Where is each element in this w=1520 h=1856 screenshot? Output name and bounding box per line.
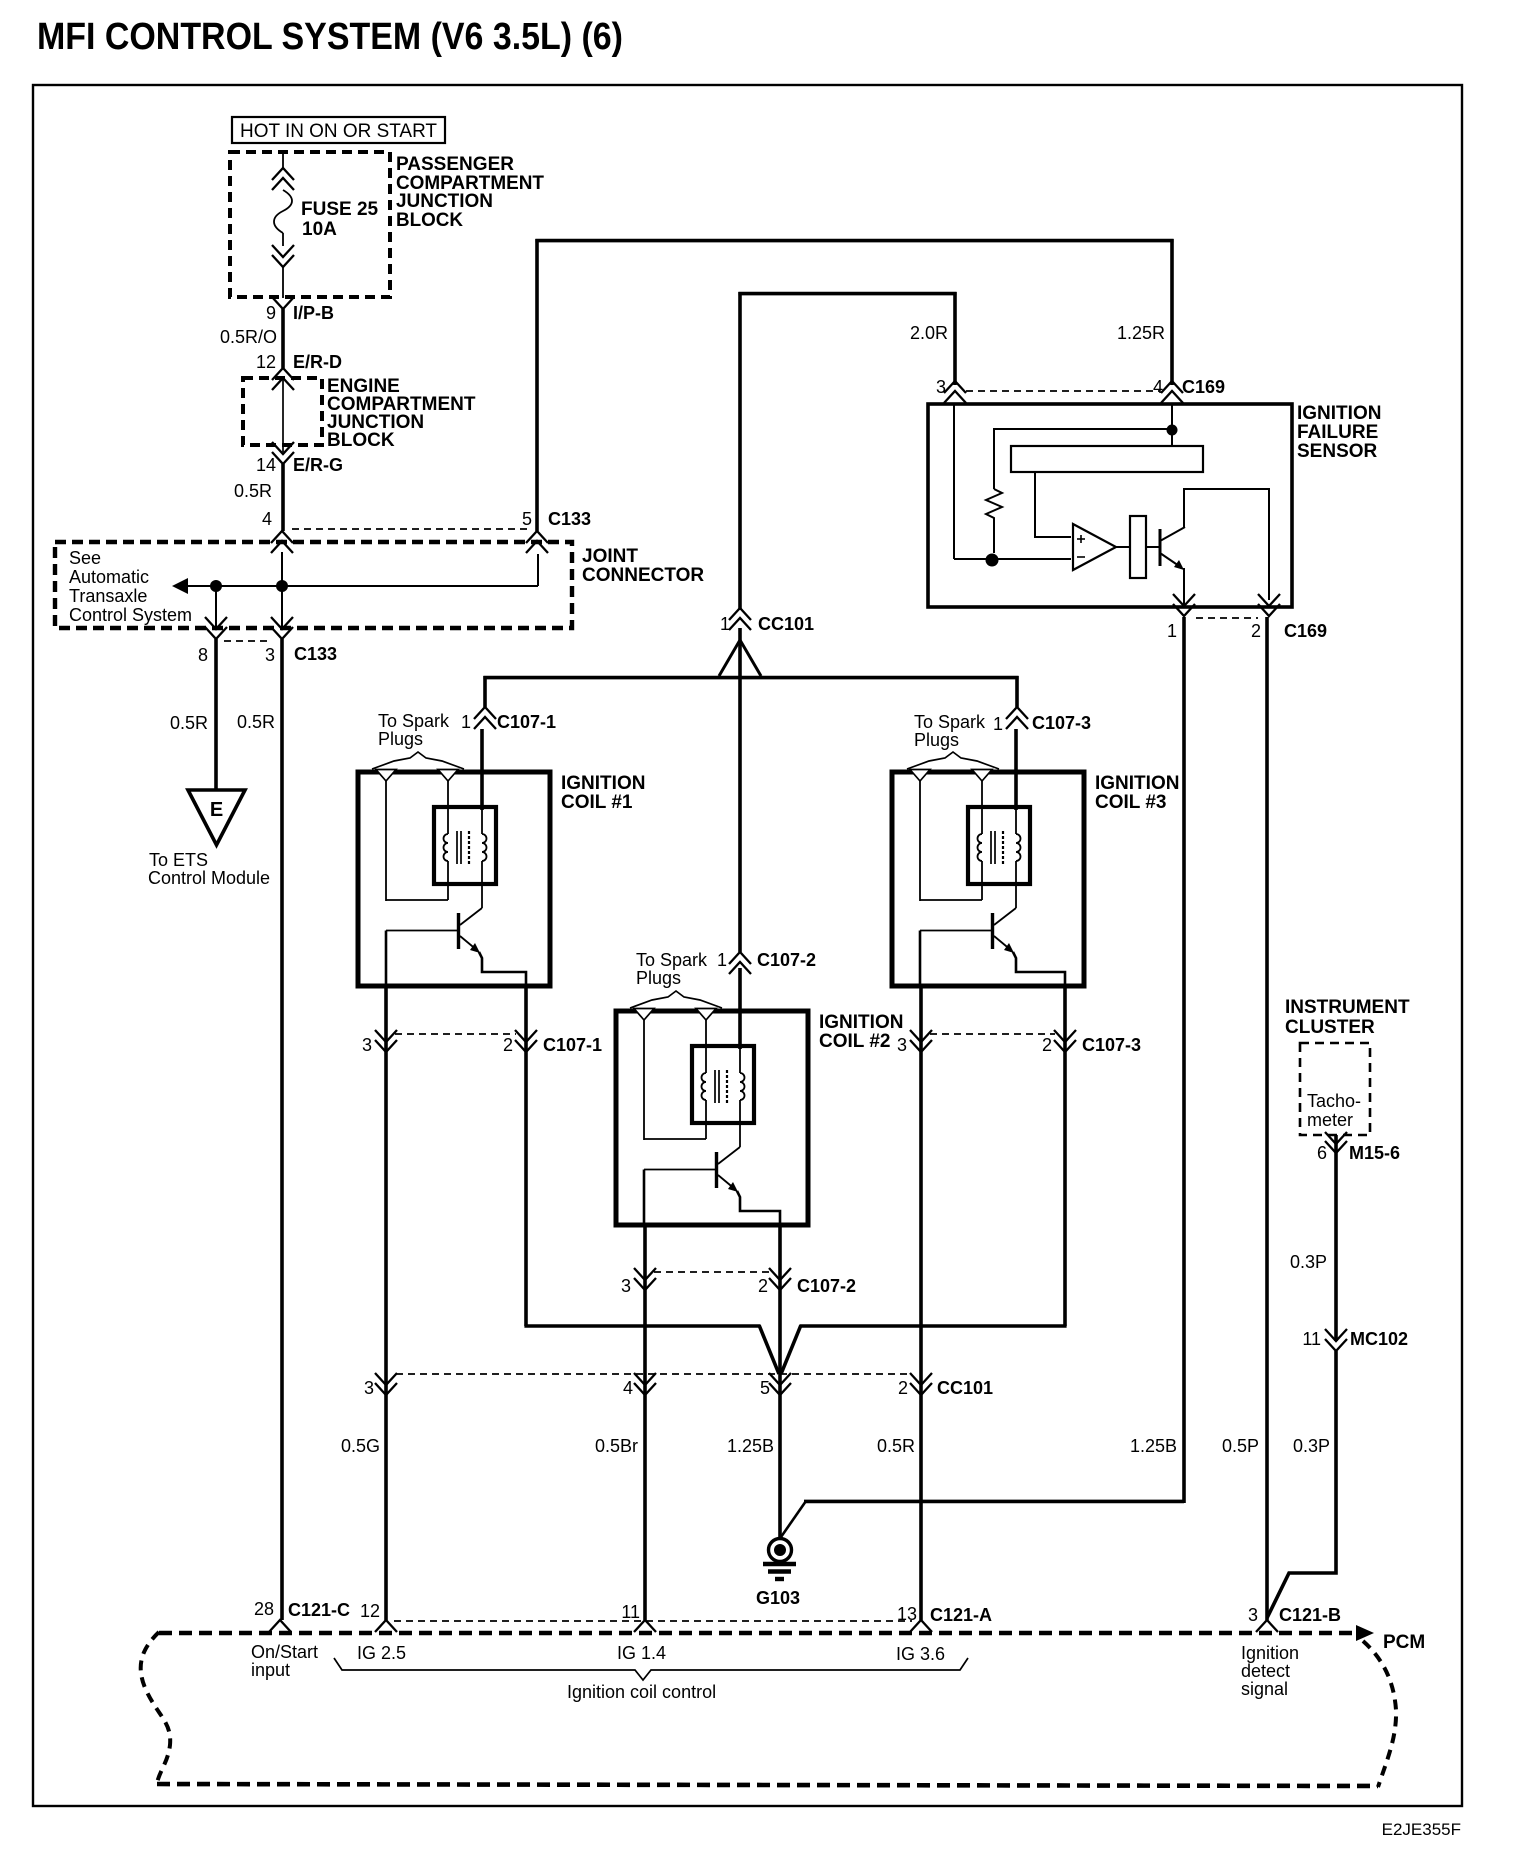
wire 0.3P tacho: [1334, 1135, 1338, 1341]
svg-text:4: 4: [262, 509, 272, 529]
svg-text:12: 12: [256, 352, 276, 372]
wire 0.5P C169-2 to PCM: [1265, 617, 1269, 1620]
connector 13 C121-A: [910, 1620, 932, 1632]
svg-text:Ignition: Ignition: [1241, 1643, 1299, 1663]
ground E: [188, 790, 245, 845]
svg-text:3: 3: [362, 1035, 372, 1055]
svg-text:11: 11: [621, 1602, 640, 1622]
resistor block (sensor): [1011, 446, 1203, 472]
junction dot: [210, 580, 222, 592]
svg-text:BLOCK: BLOCK: [327, 430, 395, 451]
passenger compartment junction block: [230, 152, 390, 297]
primary wire (coil 1): [480, 729, 484, 810]
ground G103: [769, 1539, 792, 1562]
wires below coil 3: [919, 988, 923, 1620]
svg-text:JOINT: JOINT: [582, 546, 638, 567]
svg-text:1: 1: [720, 614, 730, 634]
svg-text:signal: signal: [1241, 1679, 1288, 1699]
svg-text:2: 2: [503, 1035, 513, 1055]
dashed link 1-2 C169: [1196, 617, 1258, 619]
wires below coil 1: [384, 988, 388, 1620]
svg-text:1.25R: 1.25R: [1117, 323, 1165, 343]
svg-text:C169: C169: [1182, 377, 1225, 397]
spark plug notch (coil 3): [910, 770, 930, 782]
svg-text:2: 2: [758, 1276, 768, 1296]
transistor Q1 (sensor): [1159, 529, 1162, 566]
svg-text:E2JE355F: E2JE355F: [1382, 1820, 1461, 1839]
svg-text:2: 2: [1042, 1035, 1052, 1055]
sensor internal wires: [953, 404, 955, 559]
emitter wire (coil 3): [1013, 952, 1065, 988]
svg-text:Automatic: Automatic: [69, 567, 149, 587]
svg-text:3: 3: [936, 377, 946, 397]
connector 5 CC101: [769, 1373, 791, 1385]
svg-text:1: 1: [993, 714, 1003, 734]
svg-text:0.5Br: 0.5Br: [595, 1436, 638, 1456]
ignition coil #2 box: [616, 1011, 808, 1225]
label: HOT IN ON OR START: [232, 117, 445, 143]
svg-text:8: 8: [198, 645, 208, 665]
node (junction dot): [986, 554, 999, 567]
svg-text:SENSOR: SENSOR: [1297, 441, 1378, 462]
svg-text:FAILURE: FAILURE: [1297, 422, 1378, 443]
svg-text:2.0R: 2.0R: [910, 323, 948, 343]
connector 1 C107-3: [1006, 707, 1028, 719]
svg-text:C107-1: C107-1: [543, 1035, 602, 1055]
driver block: [1130, 516, 1146, 578]
svg-text:To Spark: To Spark: [914, 712, 986, 732]
connector 11 MC102: [1325, 1329, 1347, 1341]
svg-text:input: input: [251, 1660, 290, 1680]
dashed link C107-1: [395, 1033, 516, 1035]
svg-text:0.3P: 0.3P: [1290, 1252, 1327, 1272]
wire 1.25B from sensor to ground: [1182, 617, 1186, 1503]
ignition coil #1 box: [358, 772, 550, 986]
emitter to pin1: [1183, 568, 1185, 607]
wires below coil 2: [643, 1225, 647, 1620]
svg-text:0.5R/O: 0.5R/O: [220, 327, 277, 347]
transistor Q1: [457, 913, 460, 949]
primary wire (coil 2): [738, 968, 742, 1049]
base feed wire (coil 3): [919, 931, 922, 989]
svg-text:I/P-B: I/P-B: [293, 303, 334, 323]
svg-text:2: 2: [898, 1378, 908, 1398]
wire joint connector bus: [186, 585, 538, 587]
svg-text:C107-3: C107-3: [1032, 713, 1091, 733]
base feed wire (coil 1): [385, 931, 388, 989]
svg-text:MFI CONTROL SYSTEM (V6 3.5L) (: MFI CONTROL SYSTEM (V6 3.5L) (6): [37, 16, 623, 58]
emitter wire (coil 2): [737, 1191, 780, 1227]
transistor Q2: [715, 1152, 718, 1188]
wire converge to CC101-5: [524, 1324, 760, 1328]
svg-text:0.5R: 0.5R: [877, 1436, 915, 1456]
emitter wire (coil 1): [479, 952, 526, 988]
connector 2 C107-1: [515, 1030, 537, 1042]
wire 0.5R main run: [280, 639, 284, 1620]
wire rect to op-amp +: [1035, 472, 1071, 537]
svg-text:0.5R: 0.5R: [237, 712, 275, 732]
svg-text:0.5R: 0.5R: [234, 481, 272, 501]
svg-text:6: 6: [1317, 1143, 1327, 1163]
svg-text:CONNECTOR: CONNECTOR: [582, 565, 704, 586]
svg-text:E: E: [210, 799, 223, 821]
svg-text:COIL #1: COIL #1: [561, 792, 633, 813]
svg-text:M15-6: M15-6: [1349, 1143, 1400, 1163]
connector 2 C107-2: [769, 1268, 791, 1280]
svg-text:G103: G103: [756, 1588, 800, 1608]
connector 5 C133: [526, 531, 548, 543]
svg-text:C169: C169: [1284, 621, 1327, 641]
svg-text:1: 1: [717, 950, 727, 970]
svg-text:C121-C: C121-C: [288, 1600, 350, 1620]
svg-text:Ignition coil control: Ignition coil control: [567, 1682, 716, 1702]
connector 2 C107-3: [1054, 1030, 1076, 1042]
fuse F25: [282, 152, 284, 169]
svg-text:0.5R: 0.5R: [170, 713, 208, 733]
svg-text:COIL #2: COIL #2: [819, 1031, 890, 1052]
connector 2 C169: [1258, 594, 1280, 606]
connector 3 C107-3: [910, 1030, 932, 1042]
svg-text:C107-3: C107-3: [1082, 1035, 1141, 1055]
primary wire (coil 3): [1014, 729, 1018, 810]
svg-text:1: 1: [461, 712, 471, 732]
svg-text:C121-B: C121-B: [1279, 1605, 1341, 1625]
connector 3 CC101: [375, 1373, 397, 1385]
transistor Q3: [991, 913, 994, 949]
svg-text:C107-2: C107-2: [757, 950, 816, 970]
wire C133-5 to C169-4: [535, 239, 539, 531]
svg-text:MC102: MC102: [1350, 1329, 1408, 1349]
wire CC101-1 to C169-3: [738, 292, 742, 610]
connector 11 C121-A: [634, 1620, 656, 1632]
wire 0.5R to ETS: [214, 639, 218, 790]
svg-text:BLOCK: BLOCK: [396, 210, 463, 231]
svg-text:2: 2: [1251, 621, 1261, 641]
svg-text:PASSENGER: PASSENGER: [396, 154, 514, 175]
svg-text:To Spark: To Spark: [636, 950, 708, 970]
joint connector: [55, 542, 572, 628]
svg-text:28: 28: [254, 1599, 274, 1619]
svg-text:3: 3: [621, 1276, 631, 1296]
base feed wire (coil 2): [643, 1170, 646, 1228]
svg-text:To ETS: To ETS: [149, 850, 208, 870]
svg-text:CC101: CC101: [937, 1378, 993, 1398]
svg-text:COIL #3: COIL #3: [1095, 792, 1166, 813]
transformer T1: [434, 807, 496, 884]
connector 3 C107-2: [634, 1268, 656, 1280]
op-amp output to driver block: [1114, 546, 1130, 548]
wire 0.5R/O: [281, 309, 285, 368]
wire branch to coils: [738, 628, 742, 952]
svg-text:E/R-D: E/R-D: [293, 352, 342, 372]
svg-text:C133: C133: [548, 509, 591, 529]
svg-text:13: 13: [897, 1604, 917, 1624]
svg-text:C121-A: C121-A: [930, 1605, 992, 1625]
svg-text:0.3P: 0.3P: [1293, 1436, 1330, 1456]
engine compartment junction block: [243, 378, 322, 445]
svg-text:On/Start: On/Start: [251, 1642, 318, 1662]
svg-text:INSTRUMENT: INSTRUMENT: [1285, 997, 1410, 1018]
connector 12 C121-C: [375, 1620, 397, 1632]
connector 28 C121-C: [269, 1620, 291, 1632]
dashed link 4-5: [292, 528, 527, 530]
secondary wires (coil 2): [643, 1020, 645, 1140]
wire 0.5R: [281, 464, 285, 531]
svg-text:detect: detect: [1241, 1661, 1290, 1681]
svg-text:5: 5: [760, 1378, 770, 1398]
svg-text:IG 2.5: IG 2.5: [357, 1643, 406, 1663]
wire to cal resistor rect: [993, 428, 1173, 430]
svg-text:IG 3.6: IG 3.6: [896, 1644, 945, 1664]
svg-text:IG 1.4: IG 1.4: [617, 1643, 666, 1663]
svg-text:1.25B: 1.25B: [1130, 1436, 1177, 1456]
transformer T2: [692, 1046, 754, 1123]
secondary wires (coil 1): [385, 781, 387, 901]
svg-text:IGNITION: IGNITION: [1095, 773, 1179, 794]
svg-text:4: 4: [1153, 377, 1163, 397]
svg-text:Plugs: Plugs: [378, 729, 423, 749]
junction dot: [1167, 425, 1178, 436]
svg-text:Tacho-: Tacho-: [1307, 1091, 1361, 1111]
wire 0.3P to PCM: [1267, 1351, 1336, 1618]
dashed link 3-4 C169: [966, 390, 1160, 392]
svg-text:9: 9: [266, 303, 276, 323]
PCM box: [159, 1631, 1358, 1636]
svg-text:5: 5: [522, 509, 532, 529]
resistor (sensor): [986, 489, 1002, 553]
connector 4 C169: [1161, 381, 1183, 393]
connector 3 C133: [271, 617, 293, 629]
op-amp U1: [1073, 524, 1116, 570]
connector 1 C107-2: [729, 952, 751, 964]
svg-text:E/R-G: E/R-G: [293, 455, 343, 475]
svg-text:HOT IN ON OR START: HOT IN ON OR START: [240, 121, 437, 142]
connector 1 C169: [1173, 594, 1195, 606]
svg-text:11: 11: [1302, 1329, 1321, 1349]
svg-text:4: 4: [623, 1378, 633, 1398]
svg-text:FUSE 25: FUSE 25: [301, 199, 379, 220]
svg-text:meter: meter: [1307, 1110, 1353, 1130]
svg-text:CLUSTER: CLUSTER: [1285, 1017, 1375, 1038]
svg-text:C133: C133: [294, 644, 337, 664]
collector rail: [1184, 489, 1269, 600]
transformer T3: [968, 807, 1030, 884]
secondary wires (coil 3): [919, 781, 921, 901]
connector 1 C107-1: [474, 707, 496, 719]
dashed link CC101 row: [396, 1373, 910, 1375]
svg-text:14: 14: [256, 455, 276, 475]
connector 8 C133: [205, 617, 227, 629]
svg-text:Plugs: Plugs: [914, 730, 959, 750]
spark plug notch (coil 1): [376, 770, 396, 782]
svg-text:12: 12: [360, 1601, 380, 1621]
svg-text:CC101: CC101: [758, 614, 814, 634]
dashed link PCM row: [394, 1620, 912, 1622]
connector 3 C121-B: [1256, 1620, 1278, 1632]
svg-text:10A: 10A: [302, 219, 337, 240]
connector 1 CC101: [729, 608, 751, 620]
svg-text:3: 3: [1248, 1605, 1258, 1625]
svg-text:C107-1: C107-1: [497, 712, 556, 732]
connector 14 E/R-G: [272, 442, 294, 454]
svg-text:IGNITION: IGNITION: [819, 1012, 903, 1033]
svg-text:0.5P: 0.5P: [1222, 1436, 1259, 1456]
svg-text:Control System: Control System: [69, 605, 192, 625]
connector 3 C107-1: [375, 1030, 397, 1042]
svg-text:IGNITION: IGNITION: [1297, 403, 1381, 424]
dashed link C107-3: [930, 1033, 1055, 1035]
svg-text:See: See: [69, 548, 101, 568]
connector 4 C133: [271, 531, 293, 543]
connector 9 I/P-B: [272, 297, 294, 309]
svg-text:1.25B: 1.25B: [727, 1436, 774, 1456]
connector 2 CC101: [910, 1373, 932, 1385]
wire dot to op-amp -: [992, 558, 1071, 560]
dashed link C107-2: [654, 1271, 770, 1273]
svg-text:Transaxle: Transaxle: [69, 586, 147, 606]
brace ignition coil control: [334, 1658, 968, 1680]
svg-text:PCM: PCM: [1383, 1632, 1425, 1653]
connector 4 CC101: [634, 1373, 656, 1385]
svg-text:C107-2: C107-2: [797, 1276, 856, 1296]
svg-text:3: 3: [364, 1378, 374, 1398]
svg-text:Plugs: Plugs: [636, 968, 681, 988]
ignition failure sensor box: [928, 404, 1292, 607]
dashed link 8-3: [224, 640, 272, 642]
svg-text:0.5G: 0.5G: [341, 1436, 380, 1456]
connector 12 E/R-D: [272, 368, 294, 380]
svg-text:To Spark: To Spark: [378, 711, 450, 731]
svg-text:3: 3: [897, 1035, 907, 1055]
spark plug notch (coil 2): [634, 1009, 654, 1021]
svg-text:Control Module: Control Module: [148, 868, 270, 888]
junction dot: [276, 580, 288, 592]
svg-text:JUNCTION: JUNCTION: [396, 191, 493, 212]
ignition coil #3 box: [892, 772, 1084, 986]
svg-text:3: 3: [265, 645, 275, 665]
svg-text:1: 1: [1167, 621, 1177, 641]
svg-text:IGNITION: IGNITION: [561, 773, 645, 794]
connector 6 M15-6: [1325, 1132, 1347, 1144]
connector 3 C169: [944, 381, 966, 393]
